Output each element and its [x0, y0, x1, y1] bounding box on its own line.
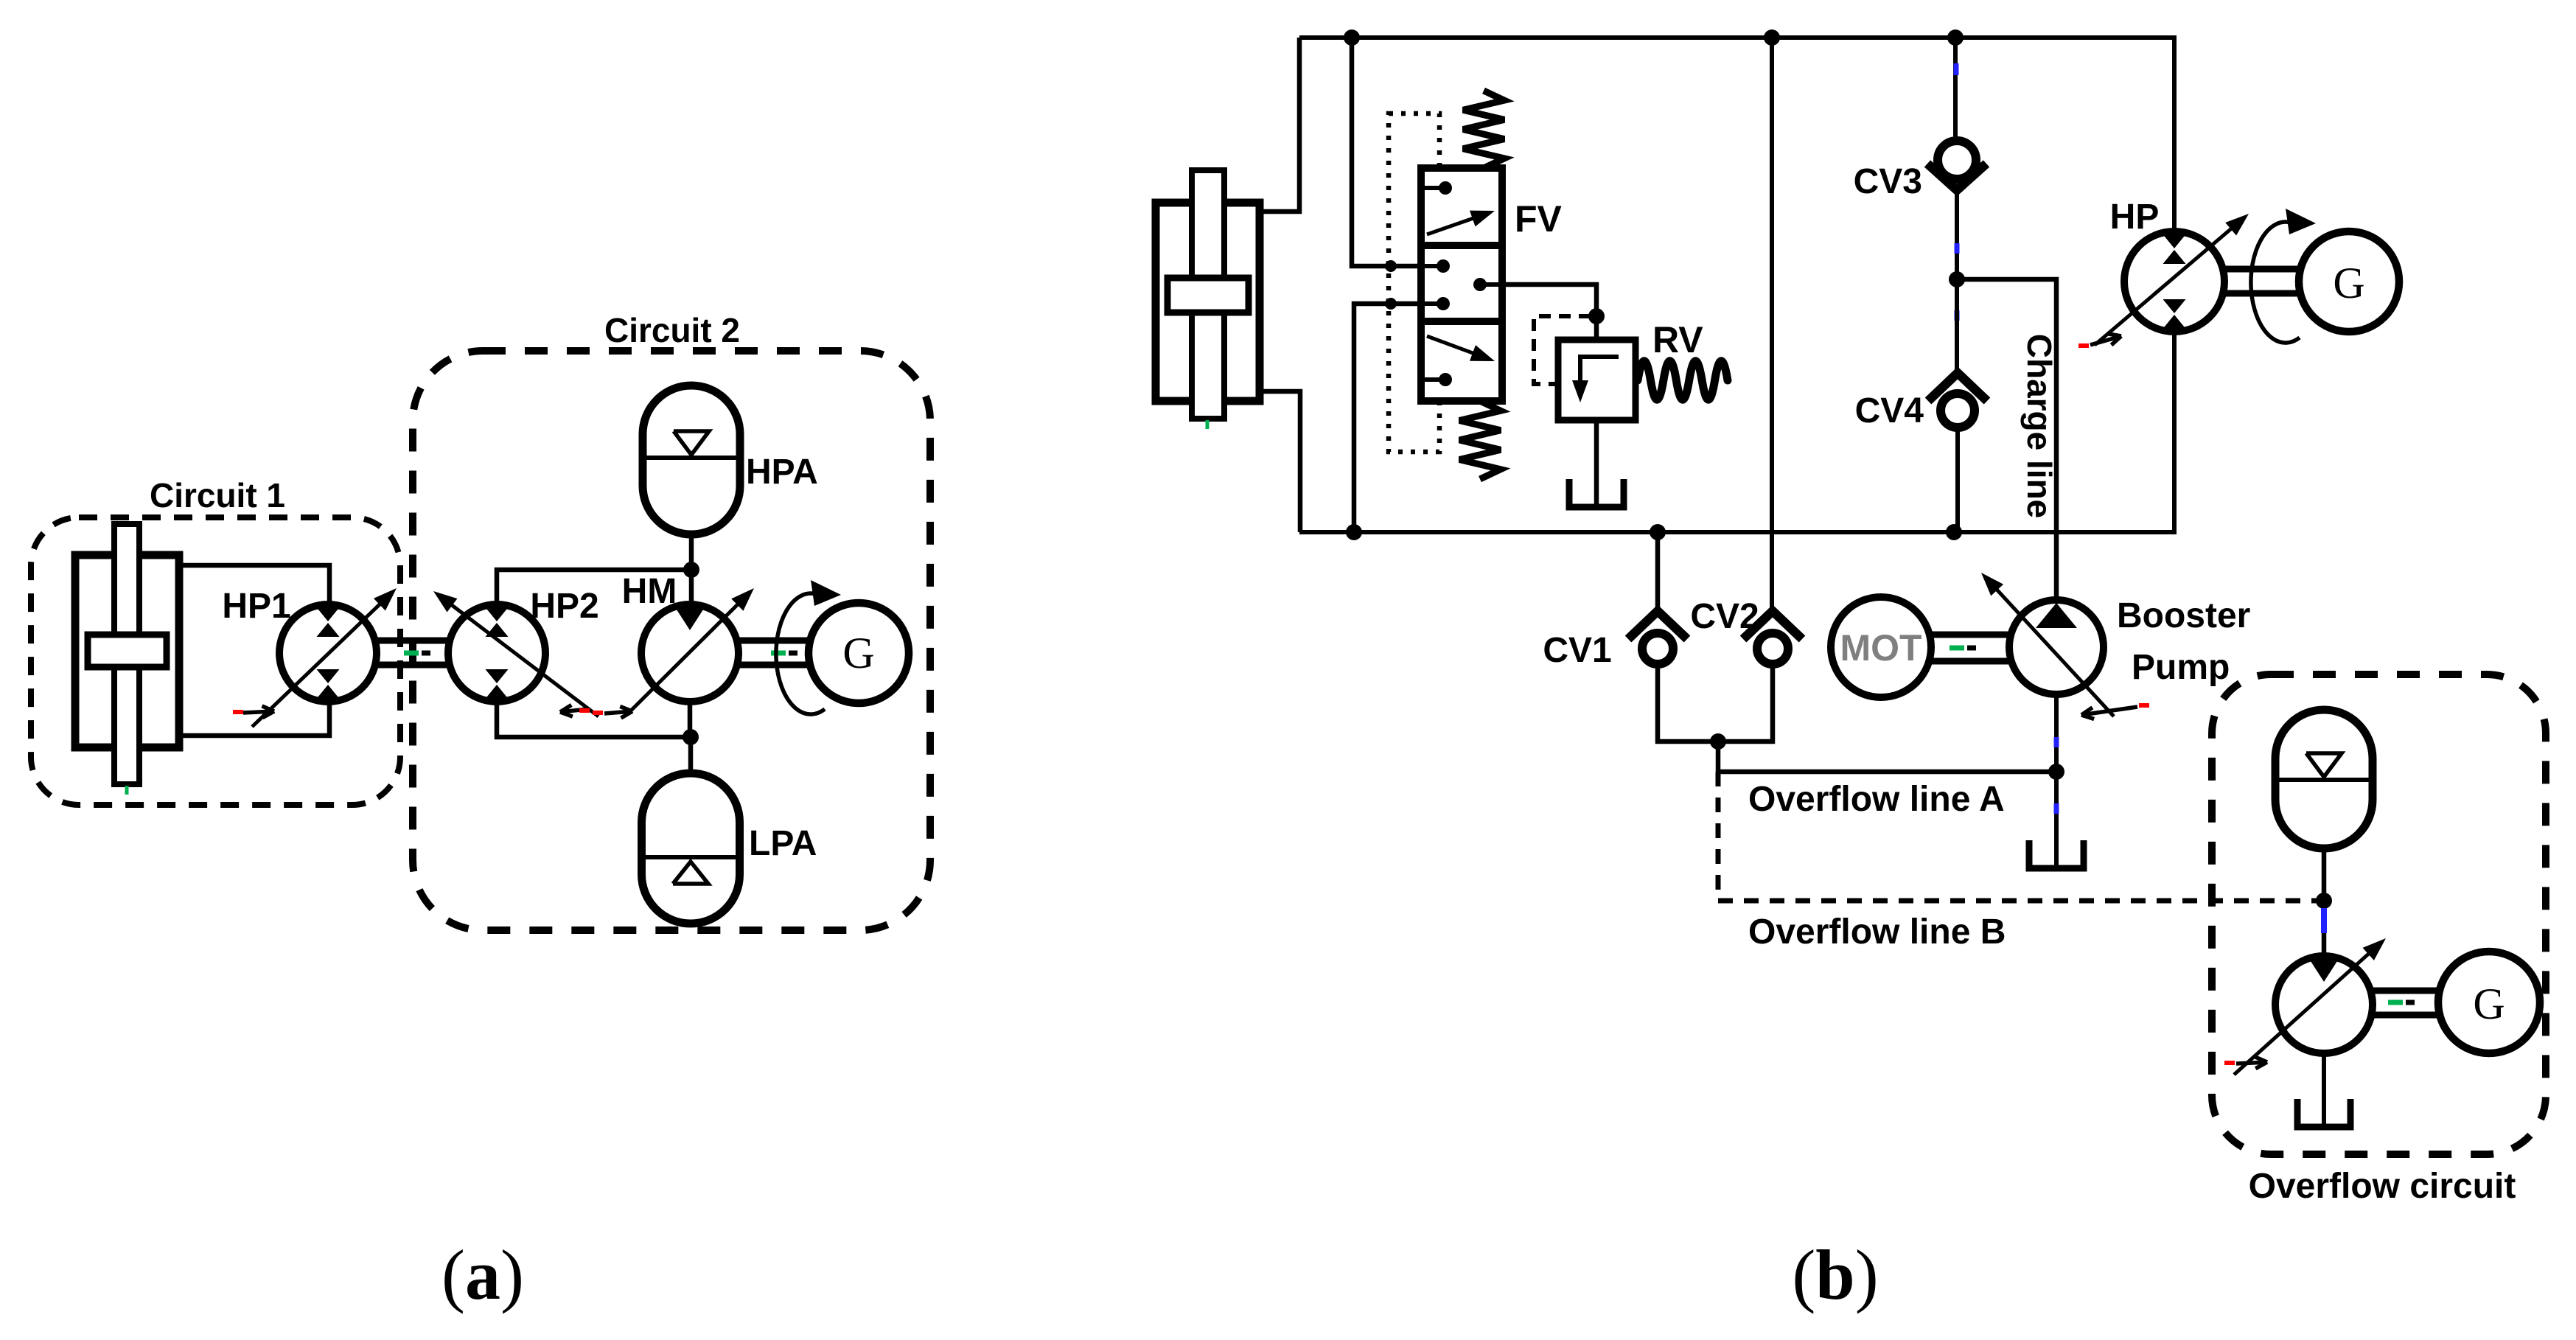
wire RV inlet — [1594, 316, 1599, 340]
dashed box Circuit 1 — [31, 517, 400, 805]
dashed box Circuit 2 — [413, 351, 930, 930]
FV box3 arrow — [1427, 336, 1488, 359]
accumulator HPA — [643, 385, 740, 534]
junction FV upper port — [1385, 260, 1397, 272]
blue mark booster lower — [2054, 803, 2059, 814]
wire HM bottom to node B — [688, 702, 693, 737]
HP red mark — [2078, 343, 2089, 348]
svg-text:G: G — [2333, 259, 2364, 307]
pump HP1 — [279, 604, 377, 702]
pump HP2 — [448, 604, 545, 702]
svg-text:CV3: CV3 — [1854, 162, 1922, 201]
wire accumulator to node — [2322, 848, 2327, 901]
wire overflow pump to tank — [2322, 1053, 2326, 1126]
generator G of overflow circuit — [2438, 952, 2540, 1053]
wire junction to CV4 — [1955, 279, 1959, 375]
junction bottom rail CV1 — [1650, 524, 1666, 540]
rotation arrow at HM shaft — [776, 593, 825, 714]
wire CV3 from top rail — [1953, 38, 1958, 142]
booster pump — [2009, 600, 2104, 694]
blue mark overflow — [2321, 908, 2327, 933]
junction top rail FV — [1344, 29, 1360, 46]
check valve CV1 — [1628, 611, 1687, 639]
HM variable displacement arrow — [626, 593, 749, 715]
wire HP2 bottom to node B — [497, 702, 691, 737]
booster control arrow — [2081, 707, 2137, 715]
generator G of circuit 2 — [809, 603, 909, 703]
FV spring bottom — [1459, 401, 1501, 479]
cylinder A green mark — [125, 786, 129, 795]
wire FV to RV — [1502, 285, 1596, 318]
shaft HP1-HP2 — [375, 638, 450, 644]
wire HP vertical top — [2172, 38, 2177, 231]
overflow motor control arrow — [2236, 1062, 2267, 1064]
cylinder B piston — [1167, 278, 1249, 313]
HP1 red mark — [233, 710, 243, 714]
junction overflow line B end — [2316, 893, 2332, 909]
cylinder B piston rod — [1192, 170, 1224, 419]
wire node to overflow pump — [2322, 933, 2327, 956]
svg-text:Charge line: Charge line — [2020, 334, 2059, 519]
svg-text:(a): (a) — [441, 1235, 524, 1314]
FV spring top — [1463, 91, 1504, 168]
HP2 red mark — [579, 708, 590, 713]
motor HM — [641, 604, 739, 702]
svg-text:HP: HP — [2110, 198, 2160, 237]
svg-text:HP1: HP1 — [222, 587, 290, 626]
wire RV to tank — [1594, 420, 1599, 506]
HP variable displacement arrow — [2095, 218, 2243, 345]
wire left vertical upper — [1260, 38, 1299, 212]
wire overflow line A — [1718, 770, 2056, 775]
wire cylinder A top port to HP1 — [179, 565, 329, 604]
HP2 control arrow — [560, 709, 588, 712]
svg-text:CV2: CV2 — [1690, 597, 1759, 636]
svg-text:RV: RV — [1652, 319, 1703, 360]
cylinder A body — [75, 555, 179, 747]
junction charge line — [1949, 271, 1965, 287]
wire FV lower pilot port — [1354, 304, 1423, 532]
wire junction down — [1716, 741, 1721, 772]
HM red mark — [593, 711, 603, 715]
shaft HP to generator — [2223, 266, 2300, 273]
blue mark CV3 upper — [1954, 63, 1959, 75]
FV pilot dotted box — [1389, 114, 1439, 452]
svg-text:Overflow line A: Overflow line A — [1748, 780, 2005, 819]
junction bottom rail CV4 — [1946, 524, 1962, 540]
svg-text:LPA: LPA — [749, 824, 817, 863]
svg-text:HP2: HP2 — [530, 587, 598, 626]
svg-text:HM: HM — [622, 572, 677, 611]
blue mark CV3 lower — [1955, 243, 1960, 254]
svg-text:G: G — [842, 629, 874, 677]
relief valve RV box — [1558, 340, 1636, 420]
wire cylinder A bottom port to HP1 — [179, 702, 329, 736]
wire booster pump down — [2054, 694, 2059, 867]
junction overflow line A — [2048, 764, 2064, 780]
HM control arrow — [604, 711, 632, 713]
wire charge line — [1957, 279, 2056, 600]
svg-text:Booster: Booster — [2117, 596, 2250, 635]
node A junction — [683, 562, 699, 578]
svg-text:HPA: HPA — [746, 453, 818, 492]
cylinder B body — [1156, 203, 1260, 401]
svg-text:Overflow circuit: Overflow circuit — [2249, 1167, 2516, 1206]
wire CV2 down — [1718, 663, 1773, 741]
wire HP2 top to node A — [497, 570, 691, 604]
check valve CV2 — [1743, 611, 1802, 639]
RV spring — [1638, 361, 1728, 400]
blue mark booster upper — [2054, 737, 2059, 747]
shaft MOT to booster pump — [1930, 632, 2011, 638]
wire top rail — [1299, 35, 2177, 40]
overflow motor — [2275, 956, 2373, 1053]
wire CV1 down — [1658, 663, 1718, 741]
rotation arrow at HP shaft — [2251, 222, 2300, 343]
FV box3 blocked port — [1425, 377, 1441, 382]
HP2 variable displacement arrow — [439, 596, 598, 716]
wire bottom rail — [1299, 530, 2177, 534]
overflow motor variable displacement arrow — [2234, 943, 2381, 1075]
valve FV box 2 — [1421, 245, 1502, 321]
HP1 control arrow — [243, 711, 274, 713]
svg-text:G: G — [2473, 980, 2505, 1028]
wire node A to HM — [689, 570, 694, 604]
cylinder A piston rod — [114, 524, 139, 784]
svg-text:CV4: CV4 — [1855, 391, 1924, 430]
svg-text:Circuit 1: Circuit 1 — [150, 476, 285, 514]
junction overflow — [1710, 733, 1726, 750]
node B junction — [683, 729, 699, 745]
shaft overflow pump to generator — [2371, 988, 2440, 994]
HP1 variable displacement arrow — [252, 593, 391, 727]
accumulator overflow — [2275, 710, 2373, 848]
svg-text:Circuit 2: Circuit 2 — [604, 311, 740, 349]
overflow line B dashed — [1718, 772, 2322, 901]
wire CV4 to bottom rail — [1955, 428, 1960, 532]
booster variable displacement arrow — [1986, 578, 2114, 716]
blue mark CV4 upper — [1955, 310, 1960, 321]
check valve CV4 — [1928, 373, 1987, 401]
generator G of HP — [2299, 231, 2399, 332]
tank under booster pump — [2029, 840, 2084, 868]
junction top rail CV3 — [1947, 29, 1964, 46]
valve FV box 1 — [1421, 168, 1502, 245]
svg-text:FV: FV — [1515, 198, 1563, 240]
wire HPA to node A — [689, 534, 694, 570]
FV box1 blocked port — [1425, 186, 1441, 190]
FV box1 arrow — [1427, 213, 1488, 234]
svg-text:Overflow line B: Overflow line B — [1748, 912, 2006, 952]
wire CV2 vertical — [1770, 38, 1774, 610]
tank under RV — [1569, 479, 1624, 507]
svg-text:(b): (b) — [1792, 1235, 1878, 1314]
svg-text:MOT: MOT — [1840, 627, 1921, 669]
dashed box Overflow circuit — [2212, 674, 2546, 1154]
FV box2 port stubs — [1425, 264, 1439, 268]
wire left vertical lower — [1260, 391, 1300, 532]
booster red mark — [2139, 703, 2149, 708]
wire CV1 up — [1655, 532, 1661, 610]
RV pilot dashed line — [1534, 316, 1591, 384]
check valve CV3 — [1927, 164, 1986, 190]
wire FV upper pilot port — [1352, 38, 1423, 266]
junction top rail CV2 — [1764, 29, 1780, 46]
wire HP bottom — [2172, 332, 2177, 532]
junction bottom rail FV — [1346, 524, 1362, 540]
valve FV box 3 — [1421, 321, 1502, 401]
overflow red mark — [2224, 1061, 2235, 1065]
wire node B to LPA — [688, 737, 694, 773]
pump HP — [2124, 231, 2224, 332]
shaft HM to generator G — [737, 638, 810, 644]
motor MOT — [1831, 597, 1931, 697]
junction FV lower port — [1385, 298, 1397, 310]
HP control arrow — [2090, 336, 2121, 345]
tank under overflow motor — [2297, 1099, 2350, 1127]
svg-text:Pump: Pump — [2132, 648, 2230, 687]
cylinder B green mark — [1206, 420, 1210, 429]
cylinder A piston — [88, 635, 167, 667]
wire CV3 to junction — [1955, 189, 1959, 279]
RV internal arrow — [1580, 357, 1619, 389]
junction RV pilot — [1588, 308, 1605, 324]
svg-text:CV1: CV1 — [1543, 631, 1611, 670]
accumulator LPA — [642, 773, 740, 924]
